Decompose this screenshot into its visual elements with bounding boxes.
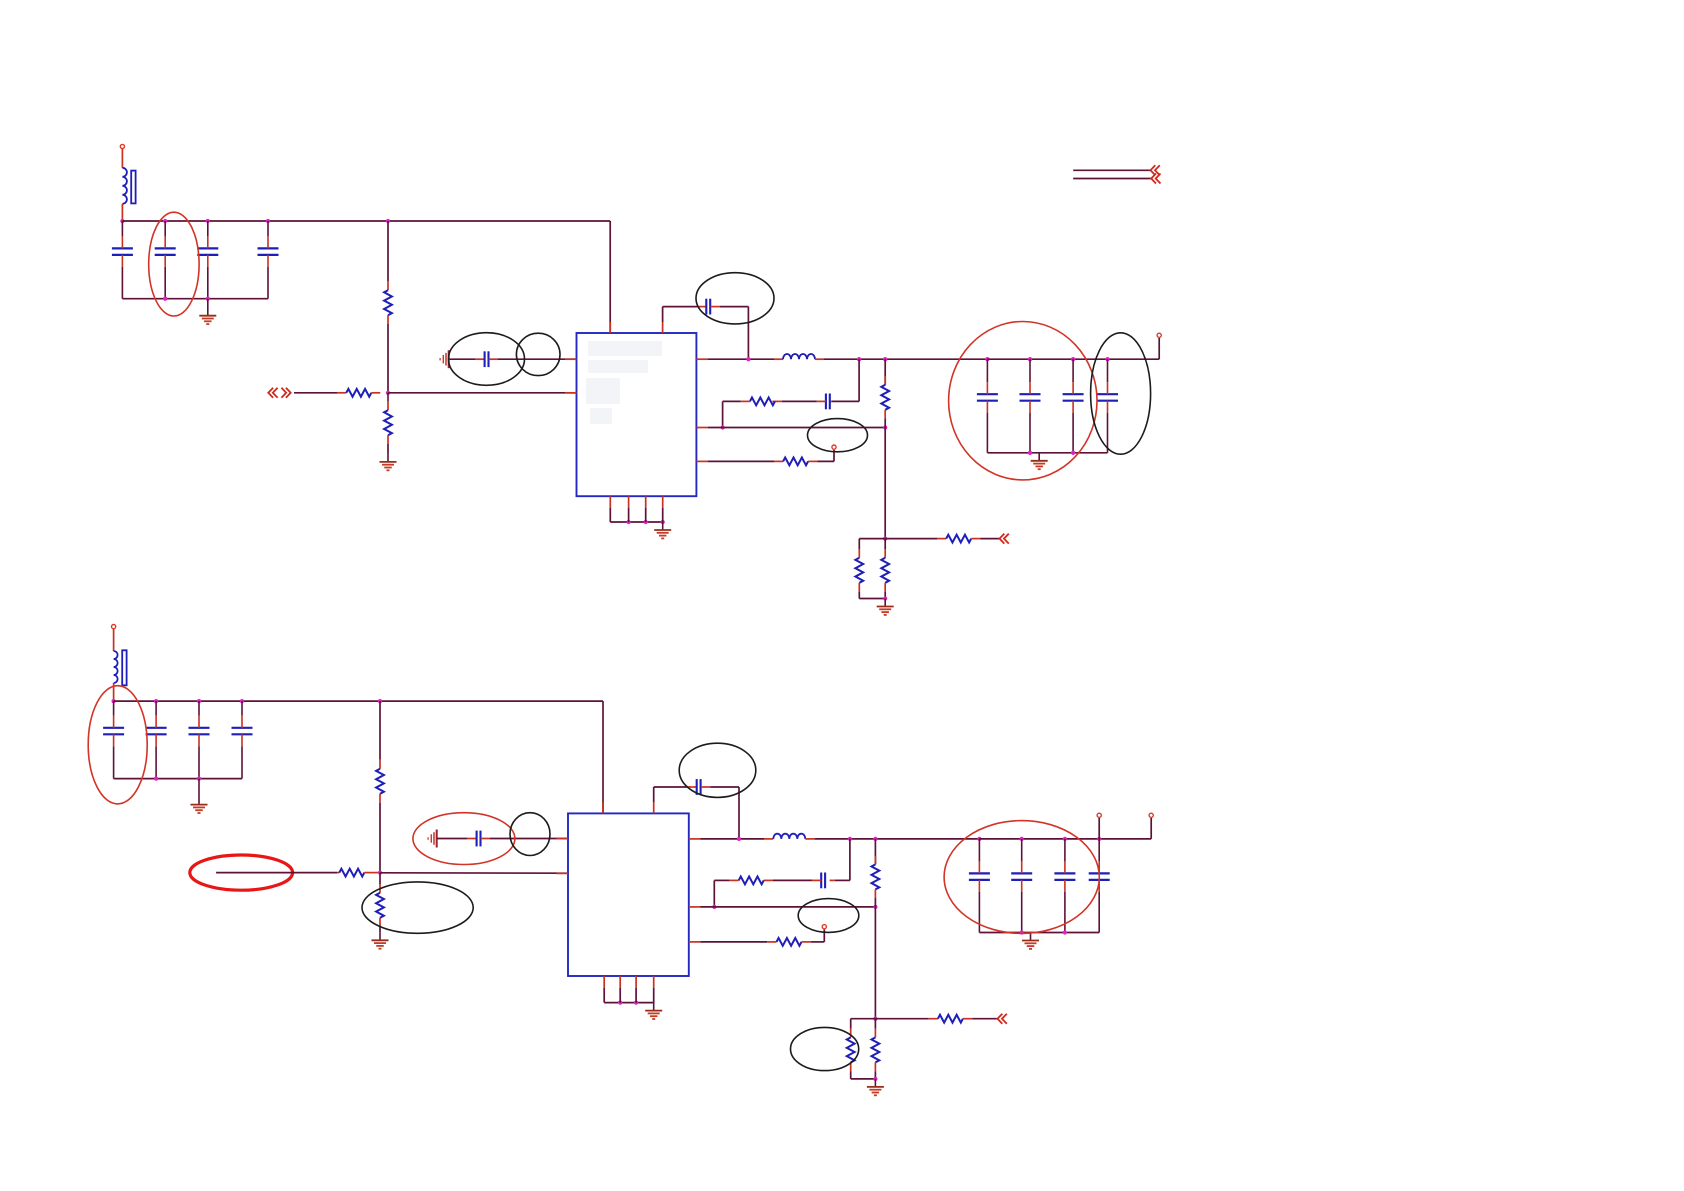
wire — [437, 838, 467, 840]
resistor R18 (to off-page) — [929, 1018, 938, 1020]
node VCC bus (bottom-left) — [111, 699, 115, 703]
capacitor C8 — [977, 359, 998, 453]
wire — [859, 598, 885, 600]
node — [154, 776, 158, 780]
node — [883, 357, 887, 361]
capacitor C18 (RC) — [830, 879, 835, 881]
capacitor C11 — [1097, 359, 1118, 453]
node divider tap — [386, 391, 390, 395]
highlight ellipse (thick red) missing connector — [190, 855, 293, 890]
node — [266, 219, 270, 223]
wire — [387, 393, 389, 401]
ground (left cap bank) — [191, 779, 208, 813]
capacitor C5 (series input) — [475, 358, 485, 360]
ground (divider bottom) — [867, 1079, 884, 1095]
pin stub U2 AF input — [557, 872, 569, 874]
terminal J1 (antenna input, top) — [120, 144, 124, 148]
node — [1071, 357, 1075, 361]
wire tap to U1 input — [388, 392, 577, 394]
highlight ellipse (black) around C11 — [1091, 333, 1151, 454]
node — [857, 357, 861, 361]
wire — [449, 358, 475, 360]
ground (left cap bank) — [199, 299, 216, 324]
node — [737, 837, 741, 841]
resistor R11 — [337, 872, 339, 874]
wire U2 out2 line — [700, 906, 875, 908]
wire — [663, 306, 697, 308]
terminal J5 (supply, bottom-right) — [1149, 813, 1153, 817]
pin stub U1 AF input — [565, 392, 577, 394]
wire bus drop to U2 VDD — [602, 701, 604, 813]
wire — [875, 1018, 928, 1020]
antenna stub symbol (RF in) — [428, 830, 437, 848]
node — [634, 1000, 638, 1004]
capacitor C12 — [103, 701, 124, 779]
wire — [823, 929, 825, 942]
capacitor C6 (feedback top) — [697, 306, 706, 308]
highlight ellipse (red) around C19-C21 bank — [944, 821, 1099, 934]
antenna element plate — [131, 171, 135, 204]
highlight ellipse (black) around TP1 — [808, 419, 868, 452]
wire — [859, 538, 885, 540]
resistor R14 (vertical) — [874, 839, 876, 865]
ground (divider) — [372, 932, 389, 948]
wire — [714, 879, 729, 881]
wire — [113, 629, 115, 651]
wire — [713, 880, 715, 907]
node — [883, 536, 887, 540]
wire — [885, 538, 937, 540]
inductor L1 (antenna coil) — [122, 168, 127, 204]
node — [206, 297, 210, 301]
antenna stub symbol (RF in) — [440, 350, 449, 368]
wire — [720, 306, 749, 308]
wire — [858, 359, 860, 401]
node — [1105, 357, 1109, 361]
highlight ellipse (red) around C16 — [413, 813, 515, 865]
wire — [722, 401, 724, 427]
node — [873, 837, 877, 841]
wire — [981, 538, 1000, 540]
terminal TP2 (test point) — [822, 925, 826, 929]
ground (U1) — [654, 522, 671, 538]
node — [154, 699, 158, 703]
wire tap to U2 input — [380, 872, 568, 874]
node — [720, 425, 724, 429]
highlight circle (black) at U2 input — [510, 813, 550, 856]
wire — [113, 683, 115, 701]
resistor R6 (out3) — [708, 460, 774, 462]
node — [378, 699, 382, 703]
wire cap-bank bottom bus — [114, 778, 242, 780]
node — [873, 1017, 877, 1021]
wire — [662, 307, 664, 322]
wire — [811, 941, 825, 943]
pin stub U1 GND pins — [609, 496, 611, 508]
wire bus drop to U1 pin VDD — [609, 221, 611, 333]
wire stub (unconnected net) — [216, 872, 337, 874]
resistor R1 — [387, 281, 389, 290]
wire gnd bus — [610, 521, 662, 523]
wire bank bottom bus — [979, 932, 1099, 934]
ground (divider bottom) — [877, 599, 894, 615]
capacitor C17 (feedback top) — [687, 786, 696, 788]
wire — [738, 787, 740, 839]
wire — [654, 786, 688, 788]
node — [626, 520, 630, 524]
off-page connector (<< >>) net AF — [268, 388, 277, 398]
pin stub U2 VDD — [602, 802, 604, 813]
wire bank bottom bus — [987, 452, 1107, 454]
wire — [782, 400, 817, 402]
highlight ellipse (red) around C2 — [149, 212, 199, 316]
node — [746, 357, 750, 361]
resistor R7 (parallel pair left) — [858, 539, 860, 549]
resistor R16 (parallel pair left) — [850, 1019, 852, 1029]
wire gnd bus — [604, 1002, 654, 1004]
capacitor C16 (series input) — [467, 838, 477, 840]
inductor L4 (output filter) — [764, 838, 773, 840]
wire gnd pins drop — [619, 988, 621, 1003]
antenna element plate — [122, 650, 126, 685]
node — [206, 219, 210, 223]
resistor R3 — [387, 401, 389, 410]
wire — [294, 392, 337, 394]
wire — [773, 879, 812, 881]
wire — [379, 927, 381, 933]
pin stub U1 VDD (top-left pin) — [609, 322, 611, 333]
highlight ellipse (red) around C12 — [88, 686, 147, 804]
capacitor C13 — [146, 701, 167, 779]
node — [197, 776, 201, 780]
node — [386, 219, 390, 223]
wire bus segment B — [1073, 178, 1151, 180]
capacitor C1 — [112, 221, 133, 299]
highlight ellipse (black) around R16 — [791, 1027, 859, 1070]
terminal J2 (supply, top-right) — [1157, 333, 1161, 337]
wire — [379, 803, 381, 873]
resistor R4 (vertical) — [884, 359, 886, 385]
highlight ellipse (black) around TP2 — [798, 899, 859, 933]
wire gnd pin 1 — [609, 508, 611, 522]
node — [1097, 837, 1101, 841]
wire — [835, 879, 850, 881]
IC U2 (receiver chip, bottom) — [568, 813, 689, 976]
wire — [387, 221, 389, 281]
terminal J3 (antenna input, bottom) — [112, 625, 116, 629]
wire — [490, 838, 568, 840]
pin stub U1 output 3 — [696, 460, 708, 462]
capacitor C15 — [232, 701, 253, 779]
node — [240, 699, 244, 703]
pin stub U2 top-right — [653, 802, 655, 813]
highlight ellipse (black) around C17 — [679, 743, 756, 797]
wire — [387, 444, 389, 454]
capacitor C2 — [155, 221, 176, 299]
node — [1028, 451, 1032, 455]
highlight circle (black) at U1 input — [516, 333, 560, 375]
wire gnd pins drop — [628, 508, 630, 522]
wire — [851, 1018, 876, 1020]
capacitor C19 — [969, 839, 990, 933]
ground (right cap bank) — [1022, 933, 1039, 949]
off-page connector (<<) bus A — [1151, 165, 1160, 175]
wire gnd pin 1 — [603, 988, 605, 1003]
node — [661, 520, 665, 524]
wire — [710, 786, 739, 788]
ground (U2) — [645, 1003, 662, 1019]
resistor R17 (parallel pair right) — [874, 1019, 876, 1029]
node VCC bus (top-left) — [120, 219, 124, 223]
wire — [972, 1018, 997, 1020]
node divider tap — [378, 870, 382, 874]
wire — [747, 307, 749, 360]
resistor R10 — [379, 760, 381, 769]
wire — [121, 204, 123, 221]
wire — [833, 450, 835, 462]
wire — [874, 907, 876, 1019]
wire — [832, 400, 859, 402]
node — [883, 425, 887, 429]
wire U1 out2 line — [708, 427, 885, 429]
node — [1020, 837, 1024, 841]
node — [1020, 930, 1024, 934]
wire main bus — [122, 220, 610, 222]
capacitor C9 — [1020, 359, 1041, 453]
wire — [379, 701, 381, 760]
wire — [653, 787, 655, 802]
inductor L2 (output filter) — [774, 358, 783, 360]
capacitor C21 — [1054, 839, 1075, 933]
highlight ellipse (black) around C6 — [696, 273, 774, 324]
off-page connector (<<) net OUT — [1000, 534, 1009, 544]
off-page connector (<<) bus B — [1151, 174, 1160, 184]
node — [883, 596, 887, 600]
node — [1063, 930, 1067, 934]
wire — [723, 400, 741, 402]
highlight ellipse (black) around R12 — [362, 882, 473, 933]
node — [163, 219, 167, 223]
wire — [662, 522, 664, 523]
wire main bus — [114, 700, 603, 702]
pin stub U2 out1 — [689, 838, 701, 840]
capacitor C10 — [1063, 359, 1084, 453]
wire — [1098, 818, 1100, 839]
wire — [884, 428, 886, 539]
wire — [849, 839, 851, 881]
capacitor C20 — [1011, 839, 1032, 933]
wire — [121, 149, 123, 168]
pin stub U1 RF input — [565, 358, 577, 360]
wire U2 out to bank — [700, 838, 764, 840]
node — [848, 837, 852, 841]
wire — [387, 324, 389, 393]
node — [197, 699, 201, 703]
pin stub U2 out3 — [689, 941, 701, 943]
wire — [498, 358, 577, 360]
pin stub U1 output 1 — [696, 358, 708, 360]
resistor R2 — [337, 392, 346, 394]
capacitor C7 (RC) — [830, 400, 832, 402]
wire bank bus — [979, 838, 1151, 840]
node — [1028, 357, 1032, 361]
resistor R5 (RC) — [772, 400, 781, 402]
wire U1 out to bank — [708, 358, 774, 360]
ground (divider) — [380, 454, 397, 470]
resistor R15 (out3) — [700, 941, 767, 943]
node — [873, 905, 877, 909]
wire — [1158, 338, 1160, 359]
inductor L3 (antenna coil) — [114, 651, 118, 683]
wire — [817, 460, 834, 462]
pin stub U2 GND pins — [603, 976, 605, 988]
node — [163, 297, 167, 301]
pin stub U2 out2 — [689, 906, 701, 908]
highlight ellipse (red) around C8-C10 bank — [949, 322, 1097, 480]
terminal TP1 (test point) — [832, 445, 836, 449]
wire — [1150, 818, 1152, 839]
capacitor C14 — [189, 701, 210, 779]
wire — [851, 1078, 876, 1080]
resistor R13 (RC) — [764, 879, 773, 881]
resistor R12 — [379, 884, 381, 893]
wire — [379, 873, 381, 884]
terminal J4 — [1097, 813, 1101, 817]
resistor R8 (parallel pair right) — [884, 539, 886, 549]
node — [985, 357, 989, 361]
node — [977, 837, 981, 841]
node — [873, 1077, 877, 1081]
ground (right cap bank) — [1031, 453, 1048, 469]
IC U1 ghost text — [586, 341, 662, 424]
node — [1071, 451, 1075, 455]
wire cap-bank bottom bus — [122, 298, 268, 300]
node — [618, 1000, 622, 1004]
capacitor C3 — [197, 221, 218, 299]
wire — [371, 872, 380, 874]
capacitor C22 — [1089, 839, 1110, 933]
resistor R9 (to off-page) — [937, 538, 946, 540]
pin stub U1 output 2 — [696, 427, 708, 429]
pin stub U2 RF input — [557, 838, 569, 840]
highlight ellipse (black) around C5 — [449, 333, 525, 386]
pin stub U1 (top-right pin) — [662, 322, 664, 333]
wire bank bus — [987, 358, 1159, 360]
wire bus segment A — [1073, 169, 1150, 171]
capacitor C4 — [258, 221, 279, 299]
off-page connector (<<) net OUT2 — [998, 1014, 1007, 1024]
node — [644, 520, 648, 524]
node — [712, 905, 716, 909]
IC U1 (receiver chip, top) — [577, 333, 697, 496]
node — [1063, 837, 1067, 841]
